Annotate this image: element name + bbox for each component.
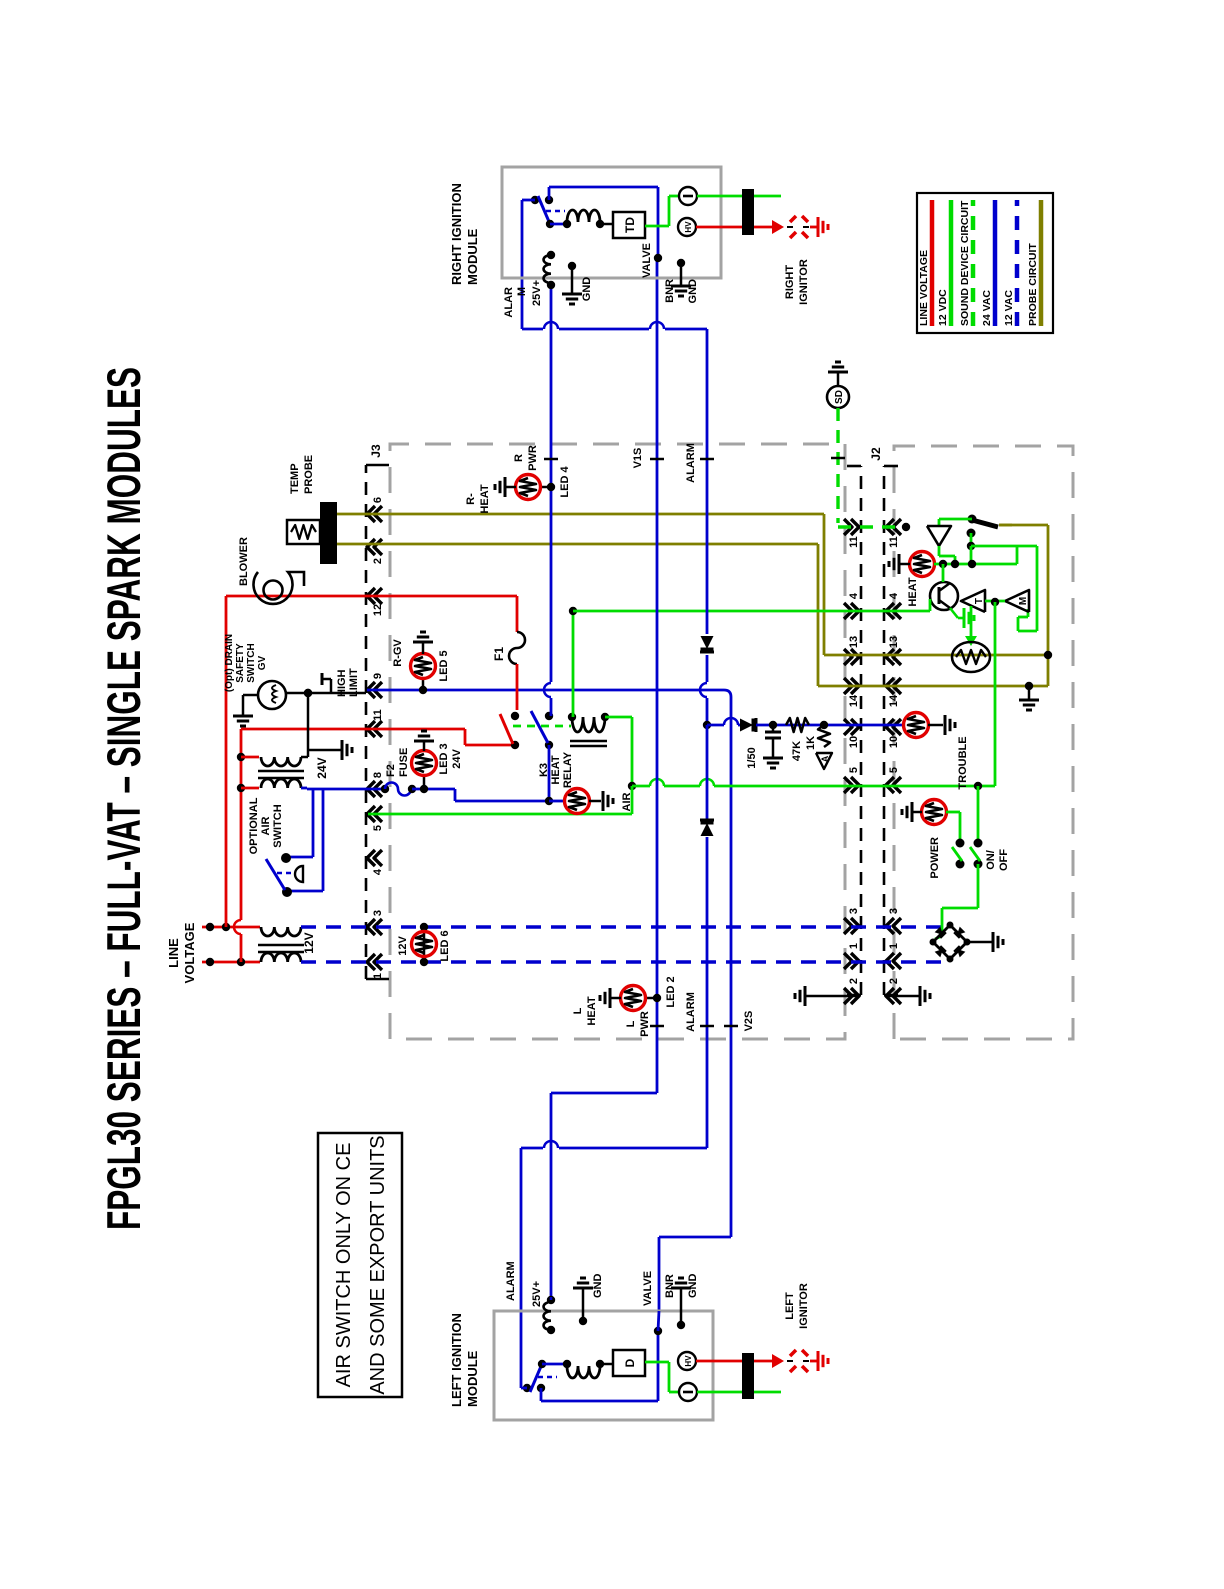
svg-text:AIR: AIR <box>621 792 633 811</box>
wire to AIR junction <box>454 789 457 801</box>
optional air switch <box>281 853 291 863</box>
svg-text:13: 13 <box>848 636 860 648</box>
left module 25V+ squiggle <box>547 1326 555 1334</box>
heat toggle switch <box>968 515 977 524</box>
svg-text:VALVE: VALVE <box>641 243 653 278</box>
svg-text:PWR: PWR <box>527 445 539 471</box>
LED 5 R-GV indicator <box>419 686 427 694</box>
left igniter HV wire <box>696 1360 742 1363</box>
svg-text:25V+: 25V+ <box>531 280 543 306</box>
svg-text:RIGHT: RIGHT <box>784 265 796 300</box>
svg-text:TROUBLE: TROUBLE <box>957 736 969 789</box>
transformer T1 12V <box>261 953 301 962</box>
wire V1S L-PWR blue <box>656 258 659 1093</box>
right module coil <box>550 223 567 226</box>
LED HEAT indicator <box>910 552 935 577</box>
ground drain switch <box>243 694 258 697</box>
svg-text:12 VAC: 12 VAC <box>1003 290 1015 326</box>
svg-text:F2: F2 <box>385 764 397 777</box>
svg-text:RIGHT IGNITION: RIGHT IGNITION <box>449 183 464 285</box>
thermistor <box>970 606 973 636</box>
svg-text:24V: 24V <box>315 757 329 778</box>
high limit switch <box>330 679 333 693</box>
svg-text:1: 1 <box>848 943 860 949</box>
J2 pin 2 chevrons <box>851 988 859 1004</box>
right module top wire <box>548 187 551 200</box>
svg-text:IGNITOR: IGNITOR <box>798 259 810 305</box>
drain safety switch GV <box>258 681 286 709</box>
left module coil <box>542 1363 567 1366</box>
wire drain switch to J3-9 <box>286 692 366 695</box>
probe olive wire pin2 <box>337 543 366 546</box>
svg-text:6: 6 <box>372 497 384 503</box>
right module 25V+ squiggle <box>547 251 555 259</box>
svg-text:R: R <box>513 454 525 462</box>
LED 3 24V indicator <box>423 776 426 789</box>
svg-text:LED 3: LED 3 <box>438 743 450 774</box>
note box: AIR SWITCH ONLY ON CE AND SOME EXPORT UNITS <box>318 1133 402 1397</box>
svg-text:OPTIONAL: OPTIONAL <box>248 797 260 854</box>
LED TROUBLE indicator <box>904 713 929 738</box>
green sounder to heat led line <box>938 546 941 556</box>
ground probe circuit <box>1028 686 1031 700</box>
svg-text:AND SOME EXPORT UNITS: AND SOME EXPORT UNITS <box>367 1135 389 1394</box>
capacitor 1/50 <box>772 725 775 732</box>
J2 pin 1 chevrons <box>851 953 859 969</box>
left module switch <box>523 1384 531 1392</box>
LED 2 L-HEAT indicator <box>653 994 661 1002</box>
green J2-5 to T-M junction <box>994 602 997 786</box>
svg-text:V2S: V2S <box>743 1011 755 1032</box>
svg-text:SOUND DEVICE CIRCUIT: SOUND DEVICE CIRCUIT <box>959 200 971 326</box>
svg-text:HEAT: HEAT <box>907 577 919 606</box>
svg-text:R-GV: R-GV <box>392 639 404 667</box>
J2-2 ground net <box>805 995 859 998</box>
svg-text:LED 2: LED 2 <box>665 976 677 1007</box>
left module top wire <box>540 1388 543 1401</box>
LED AIR indicator <box>549 800 565 803</box>
svg-text:V1S: V1S <box>632 448 644 469</box>
optional air switch taps <box>312 789 315 857</box>
J3 pin 12 chevron <box>367 588 375 604</box>
svg-text:FPGL30 SERIES – FULL-VAT – SIN: FPGL30 SERIES – FULL-VAT – SINGLE SPARK … <box>97 367 150 1230</box>
svg-text:LIMIT: LIMIT <box>348 668 360 697</box>
wire trouble into board <box>886 724 904 727</box>
red bus wire to blower and F1 <box>225 596 228 927</box>
svg-text:OFF: OFF <box>998 849 1010 871</box>
svg-text:ON/: ON/ <box>985 850 997 870</box>
J2 pin 4 chevrons <box>851 603 859 619</box>
J2 pin 3 chevrons <box>851 918 859 934</box>
svg-text:4: 4 <box>372 868 384 875</box>
svg-text:1K: 1K <box>805 736 817 750</box>
svg-text:4: 4 <box>888 592 900 599</box>
switch F1 red contact <box>511 712 519 720</box>
resistor 1K <box>818 725 830 747</box>
svg-text:GND: GND <box>687 279 699 304</box>
svg-text:HEAT: HEAT <box>586 996 598 1025</box>
svg-text:T: T <box>974 598 985 604</box>
J2 pin 10 chevrons <box>851 719 859 735</box>
resistor 47K <box>786 718 809 732</box>
sounder triangle <box>927 526 951 546</box>
right module green to electrode <box>697 195 781 198</box>
svg-text:RELAY: RELAY <box>562 751 574 788</box>
svg-text:3: 3 <box>848 908 860 914</box>
svg-text:8: 8 <box>372 772 384 778</box>
svg-text:D: D <box>623 1358 637 1367</box>
svg-text:5: 5 <box>372 825 384 831</box>
svg-text:MODULE: MODULE <box>465 1350 480 1407</box>
J3 pin 11 chevron <box>367 721 375 737</box>
right igniter HV wire <box>696 226 742 229</box>
svg-text:SD: SD <box>834 390 845 404</box>
svg-text:GND: GND <box>581 277 593 302</box>
svg-text:11: 11 <box>888 536 900 548</box>
svg-text:K3: K3 <box>538 763 550 777</box>
svg-text:J2: J2 <box>869 447 883 461</box>
svg-text:24 VAC: 24 VAC <box>981 290 993 326</box>
tick V1S <box>650 458 664 461</box>
LED 6 12V indicator <box>423 927 426 962</box>
svg-text:BNR: BNR <box>664 279 676 303</box>
svg-text:1/50: 1/50 <box>746 747 758 768</box>
main control board dashed outline <box>390 444 845 1039</box>
svg-text:IGNITOR: IGNITOR <box>798 1283 810 1329</box>
svg-text:PWR: PWR <box>639 1011 651 1037</box>
connector J2 upper strip <box>860 466 863 995</box>
svg-text:AIR SWITCH ONLY ON CE: AIR SWITCH ONLY ON CE <box>333 1143 355 1388</box>
tick ALARM left <box>700 1025 714 1028</box>
svg-text:BNR: BNR <box>664 1274 676 1298</box>
svg-text:12V: 12V <box>302 932 316 953</box>
ground SD <box>837 372 840 386</box>
line voltage lead L1 <box>202 926 260 929</box>
svg-text:M: M <box>516 287 528 296</box>
svg-text:VALVE: VALVE <box>642 1271 654 1306</box>
svg-text:HV: HV <box>684 1355 693 1367</box>
svg-text:ALARM: ALARM <box>685 992 697 1032</box>
svg-text:11: 11 <box>848 536 860 548</box>
sound device SD <box>827 386 849 408</box>
wire SD green dashed <box>836 408 839 523</box>
wire blue switch to AIR junction <box>548 745 551 801</box>
svg-text:ALAR: ALAR <box>503 287 515 318</box>
wire 12VAC dashed A (J3-3 to bridge) <box>301 925 944 929</box>
svg-text:13: 13 <box>888 636 900 648</box>
svg-text:LEFT: LEFT <box>784 1292 796 1320</box>
right igniter electrode bar <box>742 189 754 235</box>
wire 25V+ R PWR blue main <box>550 285 553 682</box>
wire green K3 to J2-4 dot <box>572 611 575 717</box>
svg-text:10: 10 <box>888 736 900 748</box>
temp probe body <box>320 502 337 564</box>
svg-text:14: 14 <box>888 694 900 707</box>
left module I terminal <box>679 1383 697 1401</box>
green heat switch top wire <box>939 518 972 521</box>
svg-text:2: 2 <box>848 978 860 984</box>
svg-text:GND: GND <box>592 1274 604 1299</box>
triangle T sounder <box>961 590 985 612</box>
transformer T2 24V <box>261 779 301 788</box>
left module GND pin <box>579 1317 587 1325</box>
svg-text:L: L <box>625 1020 637 1027</box>
svg-text:LINE: LINE <box>166 938 181 968</box>
display board dashed outline <box>894 446 1073 1039</box>
wire green J2-4 line <box>573 610 886 613</box>
wire 24V transformer primary stubs <box>241 787 259 790</box>
right module switch <box>531 196 539 204</box>
svg-text:3: 3 <box>372 910 384 916</box>
blower <box>264 581 283 600</box>
bridge ground <box>967 941 993 944</box>
svg-text:LINE VOLTAGE: LINE VOLTAGE <box>918 250 930 326</box>
wire 12VAC dashed B (J3-1 to bridge) <box>301 960 949 964</box>
svg-text:PROBE: PROBE <box>303 455 315 494</box>
svg-text:HV: HV <box>684 221 693 233</box>
wire green J2-5 line <box>632 785 650 788</box>
svg-text:GND: GND <box>687 1274 699 1299</box>
svg-text:1: 1 <box>372 973 384 979</box>
green on/off to bridge <box>977 864 980 908</box>
wire green J2-4 into transistor <box>929 599 932 611</box>
tick SD wire <box>831 457 845 460</box>
svg-text:LED 5: LED 5 <box>438 650 450 681</box>
wire green K3 to AIR/J2-5 <box>605 716 632 719</box>
J3 pin 8 chevron <box>367 781 375 797</box>
left module switch dashed <box>538 1376 557 1379</box>
svg-text:POWER: POWER <box>929 837 941 879</box>
svg-text:VOLTAGE: VOLTAGE <box>182 922 197 983</box>
green T-M link <box>985 600 1005 603</box>
air switch diaphragm <box>277 872 293 875</box>
triangle M sounder <box>1005 590 1029 612</box>
ground 24V secondary <box>308 749 342 752</box>
green heat switch bottom wire <box>970 533 973 546</box>
svg-text:11: 11 <box>372 709 384 721</box>
wire 24V secondary to J3-8 <box>301 787 307 790</box>
svg-text:12 VDC: 12 VDC <box>937 289 949 326</box>
left module D box <box>600 1363 613 1366</box>
ground heat led <box>899 563 910 566</box>
green transistor emitter ground <box>950 608 958 618</box>
power led assembly <box>922 800 947 825</box>
right module HV terminal <box>678 218 696 236</box>
probe olive wire pin6 <box>337 513 366 516</box>
svg-text:(Opt) DRAIN: (Opt) DRAIN <box>224 634 235 692</box>
wire ALARM blue <box>706 329 709 634</box>
svg-text:SWITCH: SWITCH <box>246 643 257 682</box>
svg-text:F1: F1 <box>492 647 506 661</box>
fuse F1 <box>516 596 519 632</box>
right module I terminal <box>679 187 697 205</box>
green transistor feed <box>942 564 945 582</box>
svg-text:3: 3 <box>888 908 900 914</box>
svg-text:TD: TD <box>623 217 637 233</box>
svg-text:A: A <box>820 755 830 762</box>
olive wire heat switch <box>999 524 1012 527</box>
J3 pin 6 chevron <box>367 506 375 522</box>
svg-text:PROBE CIRCUIT: PROBE CIRCUIT <box>1027 243 1039 326</box>
J2 pin 14 chevrons <box>851 678 859 694</box>
svg-text:10: 10 <box>848 736 860 748</box>
bridge rectifier <box>933 925 967 959</box>
tick R PWR <box>544 458 558 461</box>
tick V2S <box>724 1025 738 1028</box>
diode trouble <box>740 719 753 732</box>
right module TD box <box>600 223 613 226</box>
svg-text:FUSE: FUSE <box>398 748 410 777</box>
svg-text:LED 4: LED 4 <box>559 466 571 498</box>
legend box <box>917 193 1053 333</box>
svg-text:24V: 24V <box>451 749 463 769</box>
svg-text:1: 1 <box>888 943 900 949</box>
svg-text:M: M <box>1018 597 1029 605</box>
J2 pin 5 chevrons <box>851 777 859 793</box>
wire alarm to right module <box>665 328 707 331</box>
svg-text:AIR: AIR <box>260 816 272 835</box>
svg-text:25V+: 25V+ <box>531 1281 543 1307</box>
LED POWER indicator <box>977 786 980 843</box>
svg-text:MODULE: MODULE <box>465 228 480 285</box>
wire trouble blue <box>707 724 724 727</box>
svg-text:9: 9 <box>372 673 384 679</box>
svg-text:2: 2 <box>372 558 384 564</box>
right module TD green out <box>645 225 669 228</box>
tick L PWR <box>650 1025 664 1028</box>
left igniter electrode bar <box>742 1353 754 1399</box>
right igniter spark gap <box>790 232 796 238</box>
svg-text:L: L <box>572 1007 584 1014</box>
olive wire to J2-14 <box>817 544 820 686</box>
svg-text:ALARM: ALARM <box>685 443 697 483</box>
relay K3 coil <box>568 713 576 721</box>
svg-text:47K: 47K <box>791 741 803 761</box>
wire V2S to left module valve <box>659 1236 731 1239</box>
svg-text:12V: 12V <box>397 936 409 956</box>
olive wire to J2-13 <box>823 514 826 655</box>
svg-text:J3: J3 <box>369 444 383 458</box>
right igniter ground <box>810 226 818 229</box>
right module BNR GND pin <box>677 259 685 267</box>
J3 pin 2 chevron <box>367 539 375 555</box>
J2 pin 11 chevrons <box>851 519 859 535</box>
temp probe resistor <box>287 520 320 544</box>
right module switch dashed <box>546 210 565 213</box>
svg-text:HIGH: HIGH <box>336 669 348 697</box>
svg-text:LED 6: LED 6 <box>439 930 451 961</box>
wire red J3-11 to F1 switch <box>464 729 467 745</box>
J2 pin 13 chevrons <box>851 649 859 665</box>
left igniter spark gap <box>790 1366 796 1372</box>
wire green J3-5 branch <box>631 786 634 814</box>
left module BNR GND pin <box>677 1321 685 1329</box>
svg-text:TEMP: TEMP <box>289 463 301 494</box>
svg-text:5: 5 <box>888 767 900 773</box>
wire V2S jog <box>724 690 731 697</box>
svg-text:GV: GV <box>257 655 268 670</box>
green dashed switch coupling <box>513 725 571 728</box>
left ignition module box <box>494 1311 713 1420</box>
svg-text:BLOWER: BLOWER <box>238 537 250 586</box>
svg-text:4: 4 <box>848 592 860 599</box>
right module GND pin <box>568 262 576 270</box>
switch K3 blue contacts <box>545 712 553 720</box>
left module HV terminal <box>678 1352 696 1370</box>
svg-text:R-: R- <box>465 493 477 505</box>
LED 4 R-HEAT indicator <box>547 483 555 491</box>
J3 pin 5 chevron <box>367 806 375 822</box>
svg-text:SWITCH: SWITCH <box>272 804 284 847</box>
left igniter ground <box>810 1360 818 1363</box>
left module green to electrode <box>697 1391 781 1394</box>
olive wire to heat switch <box>999 524 1048 527</box>
diode on alarm line <box>701 636 714 649</box>
diode on alarm line 2 <box>701 823 714 836</box>
line voltage lead L2 <box>202 961 260 964</box>
J3 pin 9 chevron <box>367 682 375 698</box>
svg-text:HEAT: HEAT <box>550 755 562 784</box>
connector J2 lower strip <box>883 466 886 995</box>
svg-text:12: 12 <box>372 604 384 616</box>
J3 pin 4 chevron <box>367 850 375 866</box>
svg-text:14: 14 <box>848 694 860 707</box>
wire alarm to left module <box>559 1147 707 1150</box>
J3 pin 3 chevron <box>367 919 375 935</box>
svg-text:5: 5 <box>848 767 860 773</box>
transistor Q1 <box>930 582 958 610</box>
svg-text:SAFETY: SAFETY <box>235 643 246 683</box>
svg-text:HEAT: HEAT <box>479 484 491 513</box>
svg-text:LEFT IGNITION: LEFT IGNITION <box>449 1313 464 1407</box>
tick ALARM right <box>700 458 714 461</box>
svg-text:2: 2 <box>888 978 900 984</box>
connector J3 strip <box>365 465 368 979</box>
triangle A <box>816 753 832 769</box>
on/off switch <box>946 811 960 814</box>
wire R-GV blue J3-9 down <box>367 689 724 692</box>
svg-text:ALARM: ALARM <box>505 1261 517 1301</box>
wire 24V secondary to drain switch line <box>301 756 308 759</box>
left module D green out <box>645 1361 669 1364</box>
red bus wire to 24V transformer and J3-11 <box>240 934 243 962</box>
right ignition module box <box>502 167 721 278</box>
olive wire thermistor row <box>1047 525 1050 686</box>
J3 pin 1 chevron <box>367 954 375 970</box>
wire J3-8 blue with fuse F2 <box>367 788 385 791</box>
green wire to M sounder <box>1036 546 1039 631</box>
